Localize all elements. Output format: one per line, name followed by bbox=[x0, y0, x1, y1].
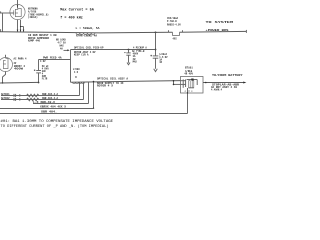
wire gate drop to bus bbox=[1, 11, 3, 31]
tube V1 envelope bbox=[10, 4, 25, 19]
capacitor C1 bbox=[150, 55, 158, 58]
bus damper label bbox=[28, 34, 57, 43]
svg-text:+POWER_BUS: +POWER_BUS bbox=[206, 29, 230, 32]
svg-text:ROTOR 4 X: ROTOR 4 X bbox=[97, 84, 114, 87]
svg-text:#01: BA1 1.30MM TO COMPENSATE: #01: BA1 1.30MM TO COMPENSATE IMPEDANCE … bbox=[1, 120, 114, 124]
svg-text:OPTICAL COIL ASSY A: OPTICAL COIL ASSY A bbox=[97, 78, 129, 81]
svg-text:XFMR-CHOKE-4A: XFMR-CHOKE-4A bbox=[76, 34, 98, 37]
svg-text:f = 400 kHz: f = 400 kHz bbox=[60, 16, 83, 21]
tube V1 internal electrodes bbox=[14, 8, 21, 16]
lower left wire bbox=[0, 81, 39, 84]
svg-text:4 20 4: 4 20 4 bbox=[185, 90, 194, 93]
battery wire bbox=[203, 82, 246, 84]
rail 3 label bbox=[33, 101, 56, 104]
tube V2 label bbox=[14, 57, 28, 70]
svg-text:400W: 400W bbox=[14, 67, 24, 70]
feed label block bbox=[56, 38, 66, 50]
svg-text:TO/FROM BATTERY: TO/FROM BATTERY bbox=[212, 73, 243, 77]
node bus/cap junction bbox=[155, 32, 157, 34]
svg-text:4R 40V: 4R 40V bbox=[184, 73, 193, 76]
regulator internals bbox=[183, 79, 197, 88]
svg-text:1:2: 1:2 bbox=[74, 71, 79, 74]
tube V2 envelope bbox=[0, 58, 13, 72]
tube V2 top stub bbox=[5, 55, 7, 58]
svg-text:MAX: MAX bbox=[133, 60, 138, 63]
svg-text:PWR FEED 4A: PWR FEED 4A bbox=[43, 56, 62, 59]
ground arrow C1 bbox=[154, 69, 158, 72]
svg-text:RADIO-4.5V: RADIO-4.5V bbox=[167, 23, 181, 26]
tube V1 cathode leads bbox=[17, 20, 25, 32]
rail ACTB11 label bbox=[1, 93, 59, 96]
rail ACTB12 label bbox=[1, 97, 59, 100]
label to/from battery bbox=[212, 73, 243, 77]
supply label below bbox=[97, 82, 124, 88]
regulator internal text bbox=[185, 90, 194, 93]
fuse labels bbox=[167, 17, 181, 40]
block input jog bbox=[173, 80, 186, 85]
label to system bbox=[206, 21, 234, 24]
rail 4 label bbox=[40, 106, 67, 109]
svg-text:Max Current = 5A: Max Current = 5A bbox=[60, 7, 94, 12]
inductor L1 bbox=[76, 33, 95, 35]
arrow feed bbox=[64, 49, 70, 51]
mid wire bbox=[71, 49, 156, 51]
svg-text:4 PICKUP A: 4 PICKUP A bbox=[133, 46, 147, 49]
cap C3 branch bbox=[124, 50, 131, 65]
coil T1 labels bbox=[73, 68, 81, 79]
coil tap risers bbox=[80, 81, 95, 109]
cap C3 labels bbox=[132, 46, 147, 63]
node C2 foot bbox=[38, 82, 40, 84]
svg-text:XAMP 440: XAMP 440 bbox=[28, 40, 40, 43]
battery net labels bbox=[211, 84, 240, 92]
note max current bbox=[60, 7, 94, 12]
regulator label bbox=[184, 67, 193, 76]
rail 5 return bbox=[0, 113, 188, 115]
supply label above bbox=[97, 78, 129, 81]
regulator block U1 bbox=[181, 77, 204, 94]
wire cap branch bbox=[155, 32, 157, 68]
capacitor C2 branch bbox=[34, 60, 41, 83]
branch label below bbox=[40, 60, 46, 63]
svg-text:FLTR: FLTR bbox=[42, 77, 48, 80]
svg-text:(400x4): (400x4) bbox=[28, 16, 38, 19]
branch label above bbox=[43, 56, 62, 59]
svg-text:KEEP CLR A: KEEP CLR A bbox=[74, 53, 89, 56]
svg-text:ACTB11: ACTB11 bbox=[1, 93, 10, 96]
tube V1 gate lead bbox=[0, 12, 14, 14]
svg-text:4XX: 4XX bbox=[173, 37, 178, 40]
svg-text:L = 500uH, 5A: L = 500uH, 5A bbox=[76, 27, 101, 30]
note line 1 bbox=[1, 120, 114, 124]
svg-text:XBR 404.: XBR 404. bbox=[41, 111, 57, 114]
tube V1 label bbox=[28, 7, 49, 19]
svg-text:TO SYSTEM: TO SYSTEM bbox=[206, 21, 234, 24]
lower right wire bbox=[71, 81, 181, 83]
svg-text:XBR-404-4-A: XBR-404-4-A bbox=[42, 97, 59, 100]
top bus wire bbox=[0, 31, 246, 35]
rail ACTB11 bbox=[1, 94, 80, 97]
svg-text:ACTB12: ACTB12 bbox=[1, 97, 10, 100]
svg-text:XBR-404-4-A: XBR-404-4-A bbox=[42, 93, 59, 96]
branch wire y59 bbox=[39, 59, 71, 61]
rail 4 bbox=[0, 108, 94, 110]
svg-text:OPTICAL COIL PICK-UP: OPTICAL COIL PICK-UP bbox=[74, 46, 104, 49]
tube V1 top lead bbox=[17, 0, 18, 9]
capacitor C2 value bbox=[42, 65, 50, 81]
svg-text:L-X XBR-40-X: L-X XBR-40-X bbox=[33, 101, 56, 104]
inductor L1 value bbox=[76, 27, 101, 30]
pickup label above bbox=[74, 46, 104, 49]
fuse terminal ticks bbox=[169, 30, 247, 33]
tube V2 internals bbox=[3, 59, 8, 69]
node pickup junction bbox=[128, 49, 130, 51]
capacitor C1 value bbox=[159, 53, 168, 64]
svg-text:4 KV: 4 KV bbox=[40, 60, 46, 63]
rail 3 bbox=[33, 103, 89, 105]
wire riser x70 bbox=[70, 50, 72, 83]
rail 5 label bbox=[41, 111, 57, 114]
tube V2 bottom lead bbox=[3, 72, 6, 84]
note line 2 bbox=[1, 124, 109, 129]
pickup label below bbox=[74, 51, 96, 57]
rail ACTB12 bbox=[1, 98, 84, 101]
block ground lead bbox=[187, 88, 188, 114]
note frequency bbox=[60, 16, 83, 21]
svg-text:TO DIFFERENT CURRENT OF _P AND: TO DIFFERENT CURRENT OF _P AND _N. (TOM … bbox=[1, 124, 109, 129]
svg-text:4.40AH.4: 4.40AH.4 bbox=[211, 89, 223, 92]
node mid junction bbox=[155, 49, 157, 51]
svg-text:XBRXX 404 4XX X: XBRXX 404 4XX X bbox=[40, 106, 67, 109]
svg-text:AC PWRA 4: AC PWRA 4 bbox=[14, 57, 28, 60]
inductor L1 part label bbox=[76, 34, 98, 37]
node V2 foot bbox=[2, 82, 4, 84]
coil T1 bbox=[73, 82, 85, 84]
net label power bus bbox=[206, 29, 230, 32]
